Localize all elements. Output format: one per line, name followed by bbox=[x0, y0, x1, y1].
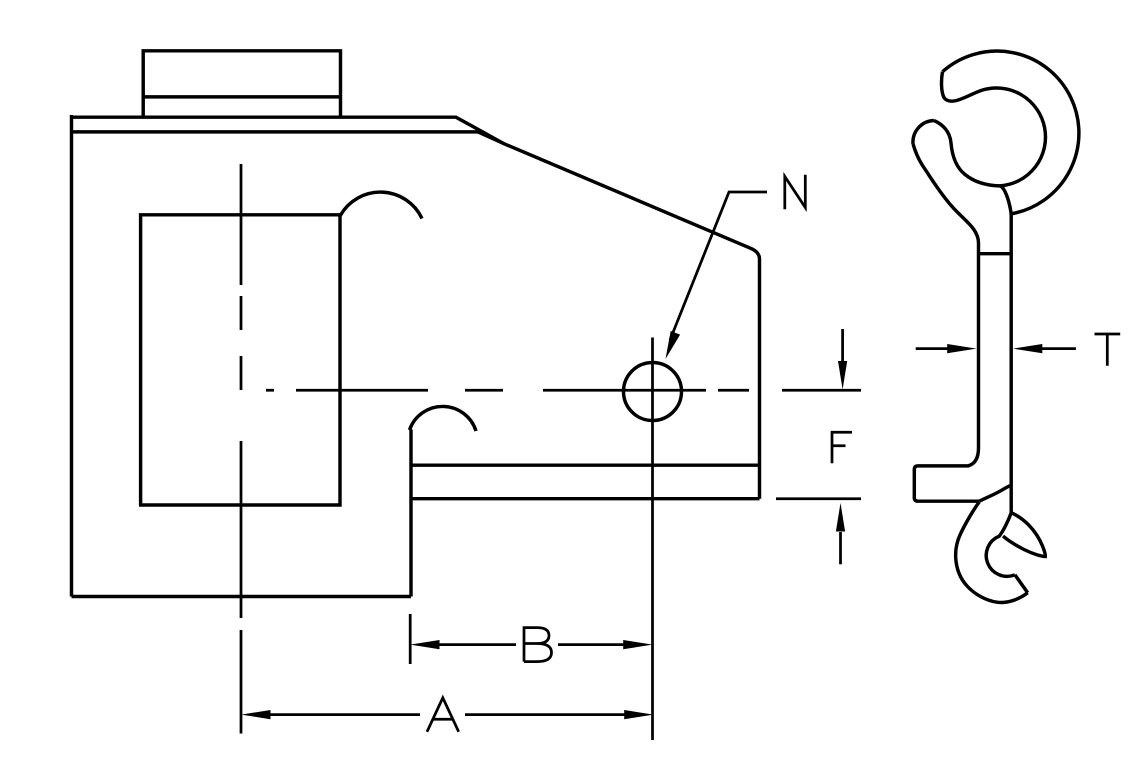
hole circle N bbox=[624, 363, 682, 421]
inner rect runout arc bbox=[340, 192, 422, 218]
leader arrowhead bbox=[666, 331, 681, 359]
F dim top arrowhead bbox=[838, 361, 847, 390]
side view: arm tip cap bbox=[913, 121, 934, 144]
A dim line left bbox=[269, 713, 420, 716]
F dim top arrow line bbox=[841, 329, 844, 362]
flange top line bbox=[411, 463, 760, 466]
A dim right arrowhead bbox=[624, 710, 653, 719]
inner rectangle bbox=[139, 215, 342, 505]
side view: foot outline bbox=[914, 466, 979, 501]
body top edge with slope bbox=[72, 117, 760, 499]
label A bbox=[427, 698, 459, 732]
vertical centerline through hole bbox=[651, 338, 654, 741]
flange bottom line bbox=[411, 497, 760, 500]
step runout arc bbox=[410, 406, 477, 431]
label B bbox=[524, 628, 552, 662]
side view: foot bend line to stem bbox=[979, 485, 1011, 501]
T dim left arrowhead bbox=[947, 344, 976, 353]
B dim left arrowhead bbox=[410, 640, 439, 649]
horizontal centerline through hole bbox=[266, 389, 861, 392]
step vertical edge bbox=[409, 430, 412, 597]
leader line to N bbox=[670, 192, 767, 340]
B dim line right bbox=[558, 643, 625, 646]
side view: bottom hook outer edge bbox=[956, 502, 1028, 603]
body bottom edge bbox=[72, 595, 412, 598]
body left edge bbox=[70, 115, 73, 597]
F dim bottom reference line bbox=[776, 497, 861, 500]
side view: bottom hook end face bbox=[1015, 575, 1028, 593]
body second top line bbox=[72, 132, 505, 144]
T dim right arrowhead bbox=[1013, 344, 1042, 353]
B dim line left bbox=[438, 643, 516, 646]
label F bbox=[832, 432, 852, 463]
B dim right arrowhead bbox=[623, 640, 652, 649]
side view: bottom hook inner arc and stem junction bbox=[986, 513, 1015, 577]
side view: arm outer edge and stem left edge bbox=[913, 144, 979, 466]
label T bbox=[1095, 334, 1121, 366]
side view: arm inner edge bbox=[934, 121, 1000, 186]
T dim left arrow line bbox=[916, 347, 948, 350]
F dim bottom arrowhead bbox=[836, 503, 845, 532]
side view: hook tip lobe bbox=[1003, 513, 1045, 557]
vertical centerline of boss bbox=[240, 164, 243, 734]
front view: cap rectangle bbox=[143, 51, 340, 117]
cap mid line bbox=[143, 95, 340, 98]
A dim left arrowhead bbox=[241, 710, 270, 719]
label N bbox=[785, 175, 806, 210]
F dim bottom arrow line bbox=[839, 532, 842, 564]
side view: outer C arc and stem right edge bbox=[943, 51, 1079, 513]
T dim right arrow line bbox=[1042, 347, 1076, 350]
side view: stem bend tick bbox=[979, 252, 1012, 255]
A dim line right bbox=[465, 713, 626, 716]
side view: upper tip cap and inner C arc bbox=[942, 72, 1046, 214]
B dim extension line bbox=[409, 614, 412, 664]
